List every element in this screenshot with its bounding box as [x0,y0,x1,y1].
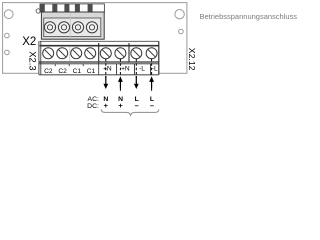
device panel outline [3,3,187,74]
label row top line [39,63,159,65]
label row bottom line [39,74,159,76]
coding tab 4 [75,4,80,12]
svg-text:AC:: AC: [88,96,99,103]
plug connector body [41,12,104,39]
label row background mask [39,63,159,74]
mounting hole left small 1 [5,33,10,38]
terminal screw C2 a [43,48,54,59]
svg-text:+N: +N [121,66,130,73]
mounting hole left small 2 [5,50,10,55]
svg-text:+: + [104,101,109,110]
terminal strip thin top line [40,40,159,42]
coding tab 3 [64,4,69,12]
terminal screw +N b [115,48,126,59]
svg-text:C2: C2 [58,68,67,75]
terminal screw -L b [146,48,157,59]
svg-text:Betriebsspannungsanschluss: Betriebsspannungsanschluss [200,12,298,21]
plug connector mounting ear [36,9,40,13]
coding tab 1 [40,4,45,12]
plug connector top row (wire entries) [40,4,104,12]
svg-text:X2: X2 [22,36,36,48]
arrow column 1 (N, down) [103,59,108,89]
svg-text:-L: -L [139,66,145,73]
arrow column 3 (L, down) [134,59,139,89]
under-brace [101,109,158,115]
strip faint divider [69,47,71,62]
strip block divider 1 [98,43,100,62]
label cell separators C area [55,62,98,75]
plug connector inner face [44,18,101,37]
mounting hole right small [179,29,184,34]
terminal screw C2 b [57,48,68,59]
terminal strip bottom line [39,61,159,63]
plug faint center seam [70,13,72,39]
terminal screw -L a [131,48,142,59]
svg-text:–: – [150,101,154,110]
mounting hole top-left [4,10,13,19]
coding tab 5 [88,4,93,12]
plug screw 2 [58,22,69,33]
terminal labels +N +N -L -L [103,66,158,73]
svg-text:X2.3: X2.3 [27,51,38,70]
coding tab 2 [52,4,57,12]
svg-text:DC:: DC: [87,103,99,110]
svg-text:–: – [135,101,139,110]
svg-text:+: + [118,101,123,110]
plug screw 3 [72,22,83,33]
svg-text:-L: -L [152,66,158,73]
terminal screw C1 a [71,48,82,59]
terminal strip right edge [158,41,160,75]
plug screw 1 [44,22,55,33]
mounting hole top-right [175,10,184,19]
svg-text:C1: C1 [73,68,82,75]
strip block divider 2 [128,43,130,62]
terminal strip thick top line [40,45,159,47]
terminal screws with slots [43,48,157,59]
arrow column 4 (L, up) [149,59,154,93]
terminal screw +N a [100,48,111,59]
svg-text:C2: C2 [44,68,53,75]
svg-text:+N: +N [103,66,112,73]
terminal screw C1 b [85,48,96,59]
plug screw 4 [86,22,97,33]
label cell separators N/L area [117,64,151,75]
terminal labels C2 C2 C1 C1 [44,68,95,75]
terminal strip left end plate [38,41,40,75]
arrow column 2 (N, up) [118,59,123,93]
svg-text:C1: C1 [87,68,96,75]
svg-text:X2.12: X2.12 [187,48,197,71]
